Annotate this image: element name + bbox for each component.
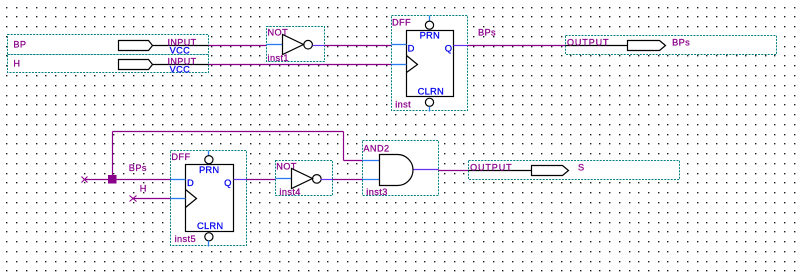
PRN bubble — [205, 156, 213, 164]
wire cross to DFF inst5 clock (net H) — [134, 198, 171, 200]
PRN stub — [429, 16, 431, 21]
input stub — [276, 178, 292, 180]
svg-text:BPs: BPs — [129, 163, 147, 173]
D input stub — [392, 44, 407, 46]
svg-text:AND2: AND2 — [363, 143, 389, 153]
inverter bubble — [304, 40, 313, 49]
wire DFF inst5 Q stub segment (violet) — [234, 179, 247, 181]
AND2 gate inst3 — [363, 141, 439, 198]
svg-text:Q: Q — [224, 177, 231, 188]
svg-text:inst3: inst3 — [366, 187, 387, 197]
net name label H (bottom) — [140, 184, 147, 194]
svg-text:VCC: VCC — [170, 45, 191, 55]
feedback wire vertical down to AND2 — [343, 132, 345, 161]
net name label BPs (bottom) — [129, 163, 147, 173]
svg-text:Q: Q — [445, 43, 452, 54]
input stub — [267, 44, 283, 46]
svg-text:BPs: BPs — [672, 38, 690, 48]
CLRN bubble — [205, 233, 213, 241]
AND2 body — [380, 155, 414, 186]
svg-text:BPs: BPs — [478, 28, 496, 38]
D input stub — [171, 179, 186, 181]
svg-text:H: H — [13, 59, 20, 69]
svg-text:VCC: VCC — [170, 64, 191, 74]
svg-text:OUTPUT: OUTPUT — [470, 162, 512, 172]
wire NOT inst1 output to DFF inst D — [325, 45, 392, 47]
junction node — [108, 175, 117, 184]
output pin BPs — [566, 36, 777, 55]
svg-text:D: D — [187, 177, 194, 188]
dangling-end cross on net H — [130, 196, 137, 202]
svg-text:CLRN: CLRN — [197, 220, 223, 231]
pin lead line — [566, 45, 628, 47]
AND2 bottom input stub — [363, 179, 380, 181]
CLRN stub — [429, 107, 431, 112]
svg-text:DFF: DFF — [171, 152, 190, 162]
inverter triangle — [292, 169, 313, 189]
wire to output pin S — [439, 170, 469, 172]
clock edge triangle — [407, 56, 418, 73]
input pin H — [8, 55, 209, 75]
svg-text:D: D — [408, 43, 415, 54]
clock edge triangle — [186, 190, 197, 208]
svg-text:PRN: PRN — [420, 30, 440, 41]
wire NOT inst1 output (over stub, violet) — [313, 45, 325, 47]
svg-text:H: H — [140, 184, 147, 194]
DFF body rectangle — [407, 31, 454, 97]
CLRN stub — [208, 241, 210, 247]
svg-text:inst1: inst1 — [268, 53, 289, 63]
wire DFF inst Q to output pin BPs — [468, 45, 566, 47]
svg-text:DFF: DFF — [392, 17, 411, 27]
DFF inst — [392, 16, 468, 112]
feedback wire horizontal top — [113, 131, 344, 133]
DFF body rectangle — [186, 165, 234, 232]
feedback wire into AND2 top input — [344, 160, 363, 162]
pin lead line — [153, 64, 209, 66]
wire cross to DFF inst5 D (net BPs) — [85, 179, 171, 181]
inverter bubble — [313, 175, 322, 184]
clock stub — [171, 198, 186, 200]
clock stub — [392, 64, 407, 66]
input pin BP — [8, 35, 209, 56]
svg-text:inst: inst — [395, 99, 411, 109]
svg-text:BP: BP — [13, 40, 26, 50]
net name label BPs (top) — [478, 28, 496, 38]
wire DFF inst5 Q to NOT inst4 — [247, 179, 276, 181]
DFF inst5 — [171, 151, 247, 247]
PRN stub — [208, 151, 210, 156]
pin lead line — [469, 170, 532, 172]
feedback wire vertical from junction — [112, 132, 114, 180]
svg-text:inst4: inst4 — [279, 187, 300, 197]
wire BP pin to NOT inst1 — [209, 45, 267, 47]
input pin flag shape — [119, 60, 153, 70]
wire DFF inst Q stub segment (violet) — [454, 45, 468, 47]
wire AND2 inst3 output to box edge (violet) — [414, 169, 439, 171]
dangling-end cross on net BPs — [82, 177, 88, 183]
inverter triangle — [283, 35, 304, 55]
output pin S — [469, 161, 680, 180]
input pin flag shape — [119, 41, 153, 51]
svg-text:CLRN: CLRN — [418, 86, 444, 97]
output pin flag shape — [532, 166, 569, 176]
CLRN bubble — [425, 98, 433, 106]
svg-text:S: S — [578, 163, 585, 173]
wire NOT inst4 output (over stub, violet) — [321, 179, 333, 181]
AND2 top input stub — [363, 160, 380, 162]
svg-text:OUTPUT: OUTPUT — [567, 38, 609, 48]
wire jog at AND2 box edge — [438, 170, 440, 171]
NOT gate inst1 — [267, 27, 325, 64]
svg-text:inst5: inst5 — [175, 234, 196, 244]
wire NOT inst4 output to AND2 inst3 — [333, 179, 363, 181]
svg-text:PRN: PRN — [199, 164, 219, 175]
output pin flag shape — [628, 41, 666, 51]
pin lead line — [153, 45, 209, 47]
PRN bubble — [425, 21, 433, 29]
wire H pin to DFF inst clock — [209, 64, 392, 66]
NOT gate inst4 — [276, 161, 333, 198]
